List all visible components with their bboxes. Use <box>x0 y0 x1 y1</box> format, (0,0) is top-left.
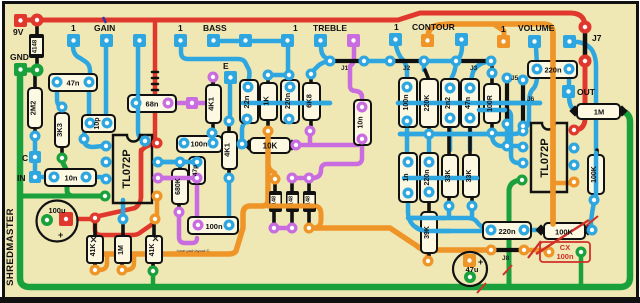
wire blue 100R bottom curve <box>492 135 505 146</box>
pad J3 left <box>451 56 462 67</box>
red cut slash small over orange <box>528 241 541 258</box>
svg-text:100R: 100R <box>487 95 494 112</box>
svg-text:100n: 100n <box>205 222 223 231</box>
pad holes <box>18 18 596 279</box>
diode D1 4148 leads <box>35 22 39 64</box>
svg-text:3K3: 3K3 <box>55 123 64 137</box>
pad VOLUME <box>528 35 541 48</box>
pad 4K1a top magenta <box>208 72 219 83</box>
wire magenta 680K bottom hook to 100n <box>179 213 197 243</box>
resistor lead 6K8 <box>309 75 313 130</box>
wire red 41K1 top zigzag <box>95 218 154 235</box>
pad J6 top <box>518 75 529 86</box>
pad diode2 bottom magenta <box>269 223 280 234</box>
pad 1n bottom <box>403 188 414 199</box>
wire blue J6 bottom to IC pin1 <box>521 126 526 130</box>
wire orange through 10K <box>265 136 271 154</box>
wire blue bus y178 <box>404 176 477 181</box>
pad 47u plus square <box>463 254 476 267</box>
svg-text:BASS: BASS <box>203 23 227 33</box>
svg-text:1M: 1M <box>594 108 604 117</box>
pad 220nA top <box>285 82 296 93</box>
resistor 1K body <box>260 83 277 120</box>
pad J2 left <box>385 56 396 67</box>
pad third gain end <box>140 136 151 147</box>
resistor lead 220K <box>425 70 429 133</box>
pad 10K right magenta <box>291 140 302 151</box>
svg-text:SHREDMASTER: SHREDMASTER <box>5 208 16 286</box>
svg-text:47n: 47n <box>67 79 80 88</box>
capacitor 220nA body <box>281 80 299 123</box>
pad 100nA right <box>208 138 219 149</box>
wire blue J1 to 6K8 top <box>313 61 330 71</box>
pad BASS b <box>239 34 252 47</box>
wire blue buses over 39K <box>412 218 450 231</box>
pad J5 bottom <box>502 119 513 130</box>
svg-text:1: 1 <box>501 24 506 34</box>
pad IC-L pin8 red <box>152 138 163 149</box>
capacitor 68n body <box>128 95 176 112</box>
pad 33Kb bottom <box>467 201 478 212</box>
pad 9V round <box>31 14 44 27</box>
wire orange IC-R stub to pin <box>553 181 572 186</box>
wire blue 2n2 bottom to 33K top <box>448 120 453 150</box>
wire magenta 6K8 bottom stub <box>308 133 313 143</box>
wire blue 10n right to IC pin3 <box>86 177 106 179</box>
component 47u electrolytic outline <box>453 252 487 286</box>
tiny x mark left <box>91 237 96 242</box>
svg-text:J1: J1 <box>341 65 349 72</box>
resistor lead 33Kb <box>470 119 472 205</box>
svg-text:220n: 220n <box>424 170 431 186</box>
pad J8 left orange <box>486 245 497 256</box>
pad 10p left <box>85 118 96 129</box>
wire magenta BASS-1 pad to 10n top <box>350 46 362 104</box>
wire magenta 10K right bus <box>296 143 358 148</box>
pad IC-R pin2 <box>518 142 529 153</box>
pad diode4 top magenta <box>304 173 315 184</box>
wire blue right bus y103 <box>398 101 540 106</box>
pad 10p right <box>102 118 113 129</box>
wire orange right branch under diodes <box>268 206 321 228</box>
red tick on green vertical <box>503 265 512 275</box>
wire orange volume-1 pad stub <box>495 25 504 37</box>
pad 47p top <box>192 157 203 168</box>
pad 220nA bottom link <box>284 70 295 81</box>
svg-text:39K: 39K <box>424 226 431 239</box>
resistor lead 33Ka <box>447 119 451 205</box>
pad 100nA left <box>179 138 190 149</box>
wire blue 1K 220n top link <box>268 73 289 78</box>
wire orange y206 over diodes <box>268 204 314 209</box>
svg-text:J2: J2 <box>403 65 411 72</box>
pad J7 top red <box>579 21 592 34</box>
wire orange 39K bottom pad stub <box>426 250 428 259</box>
svg-text:2n2: 2n2 <box>445 97 452 109</box>
capacitor 1n body <box>399 153 417 202</box>
resistor 3K3 body <box>55 113 69 147</box>
wire orange J8 to CX pad <box>526 248 548 253</box>
pad treble magenta <box>347 34 360 47</box>
resistor 4K1b body <box>222 132 237 169</box>
svg-text:J8: J8 <box>502 255 510 262</box>
pad GND round <box>31 64 44 77</box>
wire blue 220n right to OUT <box>567 76 572 88</box>
wire green CX cap to bus <box>579 253 584 286</box>
pad 41K3 bottom green <box>148 266 159 277</box>
svg-text:68n: 68n <box>146 100 159 109</box>
capacitor 47p body <box>189 157 205 184</box>
wire orange CONTOUR top bus to right column <box>428 24 553 224</box>
pad GAIN <box>100 34 113 47</box>
diamond lead 1M left <box>569 105 580 116</box>
capacitor 220nT body top right <box>528 61 577 78</box>
resistor 33Kb body <box>463 155 479 197</box>
pad 220K bottom <box>424 129 435 140</box>
diode D2 leads <box>274 180 275 226</box>
wire blue y162 over 680K <box>160 160 196 165</box>
jumper J8 <box>491 248 524 252</box>
wire blue 4K1a bottom to 100n <box>210 134 215 141</box>
capacitor lead 220nA top <box>287 77 291 84</box>
capacitor 47nB body <box>461 79 479 127</box>
svg-text:VOLUME: VOLUME <box>518 23 555 33</box>
svg-text:1: 1 <box>394 22 399 32</box>
pad 10n-m bottom <box>357 134 368 145</box>
svg-text:220n: 220n <box>544 66 562 75</box>
wire magenta 10n bottom to bus <box>360 139 365 145</box>
capacitor 22n body <box>240 80 258 123</box>
resistor 10K body <box>250 138 290 153</box>
resistor lead 2M2 top <box>33 72 37 90</box>
pad IC-L pin2 <box>101 157 112 168</box>
resistor lead 4K1a <box>211 78 215 132</box>
diode D3 4148 body <box>286 191 299 212</box>
pad 100nB-bot right <box>224 220 235 231</box>
pad 10n left <box>49 172 60 183</box>
svg-text:TL072P: TL072P <box>121 149 133 188</box>
pad J1 left <box>325 56 336 67</box>
diode D3 leads <box>290 180 294 226</box>
wire blue 4K1b bottom to 100n right <box>227 179 232 222</box>
red tick on blue right <box>586 216 598 226</box>
IC U2 TL072P right <box>531 123 567 192</box>
pad 220nB bottom <box>424 187 435 198</box>
svg-text:33K: 33K <box>445 170 452 183</box>
svg-text:+: + <box>478 257 483 267</box>
wire blue through 68n <box>136 96 141 112</box>
svg-text:GAIN: GAIN <box>94 23 115 33</box>
pad IN <box>29 171 41 183</box>
svg-text:J3: J3 <box>470 65 478 72</box>
wire blue 47nB bottom to 33Kb top <box>468 120 473 150</box>
svg-text:1M: 1M <box>118 245 125 255</box>
diamond lead 10K left <box>243 139 254 150</box>
pad J6 bottom <box>518 121 529 132</box>
wire blue third pad down <box>138 46 144 141</box>
wire magenta 4K1a top pad stub <box>211 77 216 84</box>
pad diode3 bottom magenta <box>287 223 298 234</box>
pad bass1 <box>174 34 187 47</box>
pad 10K left <box>237 139 248 150</box>
pad volume1 orange <box>497 35 510 48</box>
svg-text:10K: 10K <box>263 142 278 151</box>
svg-text:10p: 10p <box>94 117 101 129</box>
svg-text:47p: 47p <box>192 165 199 176</box>
pad 1K top <box>263 70 274 81</box>
pad gain1 <box>67 34 80 47</box>
pad 1n top <box>403 157 414 168</box>
pad GND square <box>14 63 27 76</box>
wire orange 1K bottom long net <box>99 133 268 254</box>
diode D2 4148 body <box>269 191 282 212</box>
wire blue bus y134 over bodies <box>400 132 512 137</box>
diamond lead 10K right <box>286 139 297 150</box>
pad IC-L pin4 green <box>100 191 111 202</box>
wire blue 220n left to IC pin1 <box>524 76 537 129</box>
pad 6K8 bottom magenta <box>305 126 316 137</box>
wire blue IN to 10n left <box>35 175 54 180</box>
pad IC-L pin6 magenta <box>153 173 164 184</box>
svg-text:CX: CX <box>560 243 570 252</box>
wire blue E pad to 4K1b top <box>228 82 233 119</box>
pad BASS a <box>207 34 220 47</box>
diode D1 4148 body <box>29 34 44 58</box>
wire magenta IC-L pin6 to 47p bottom <box>158 176 197 181</box>
pad TREBLE <box>314 34 327 47</box>
resistor lead 1K <box>266 76 270 129</box>
pad 100Kv bottom <box>589 195 600 206</box>
svg-text:100u: 100u <box>48 206 66 215</box>
pad 220nH right <box>519 225 530 236</box>
pad 100R top <box>487 68 498 79</box>
red tick on green bus <box>477 283 486 293</box>
pad IC-R pin5 orange <box>569 177 580 188</box>
pad 2n2 bottom <box>445 113 456 124</box>
pad 39K bottom orange <box>423 256 434 267</box>
pad 68n right magenta <box>163 98 174 109</box>
pad CX left orange <box>544 247 555 258</box>
pad CONTOUR orange <box>421 34 434 47</box>
svg-text:100n: 100n <box>190 140 208 149</box>
resistor 2M2 body <box>28 88 42 128</box>
svg-text:220n: 220n <box>285 93 292 109</box>
wire orange through right IC <box>550 34 556 224</box>
svg-text:100n: 100n <box>403 95 410 111</box>
pad IC-R pin4 green <box>517 175 528 186</box>
svg-text:1: 1 <box>293 23 298 33</box>
svg-text:10n: 10n <box>358 116 365 128</box>
resistor lead 100R <box>490 63 494 132</box>
diode D4 leads <box>307 180 311 226</box>
resistor 680K body <box>172 169 188 204</box>
pad IC-R pin6 <box>569 160 580 171</box>
pad IC-R pin3 <box>518 158 529 169</box>
pad gain3 <box>133 34 146 47</box>
resistor lead 2M2 bottom <box>33 127 37 134</box>
wire blue 1n bottom to bus y231 <box>408 194 482 231</box>
wire blue 100nB bottom to 1n top <box>405 123 410 160</box>
pad 22n bottom <box>242 114 253 125</box>
resistor 41K3 body <box>146 236 162 263</box>
jumper J2 <box>390 59 424 63</box>
resistor 100R body <box>484 84 500 123</box>
capacitor 100nA body <box>177 136 222 152</box>
pad 3K3 top <box>57 102 68 113</box>
wire red through left IC <box>139 150 144 198</box>
pad IC-L pin7 blue <box>153 157 164 168</box>
pad 1K bottom orange <box>263 126 274 137</box>
svg-text:1n: 1n <box>403 173 410 181</box>
pad contour right <box>455 33 468 46</box>
capacitor 10p body <box>82 115 115 132</box>
wire blue mid bus y103 <box>243 101 330 106</box>
svg-text:680K: 680K <box>175 178 182 195</box>
pad 47n right <box>84 77 95 88</box>
pad 220nB top <box>424 157 435 168</box>
pad 220nA lower <box>284 114 295 125</box>
pad 100nB-bot left magenta <box>193 220 204 231</box>
svg-text:IN: IN <box>17 173 26 183</box>
wire blue J2 right pad stub down <box>422 63 427 70</box>
capacitor 10n body <box>45 169 96 186</box>
pad IC-R pin7 <box>569 143 580 154</box>
component 100u electrolytic outline <box>37 201 78 242</box>
svg-text:E: E <box>223 61 229 71</box>
wire blue J2-J3 link <box>424 59 456 64</box>
wire blue BASS row bus <box>214 39 288 44</box>
svg-text:1: 1 <box>178 23 183 33</box>
pad 10n-m top <box>357 102 368 113</box>
wire blue 22n bottom to 10K left <box>242 121 247 143</box>
wire red 100u plus to 41K <box>66 217 95 222</box>
wire blue 220K bottom to 220nB top <box>427 134 432 160</box>
wire blue bus y134 to IC pin <box>400 132 521 134</box>
svg-text:100K: 100K <box>555 228 574 237</box>
wire blue 2M2 bottom to C to IN <box>33 137 38 177</box>
svg-text:C: C <box>22 153 28 163</box>
svg-text:1K: 1K <box>262 96 271 106</box>
pad pin2 stub <box>502 141 513 152</box>
pad OUT <box>562 85 575 98</box>
resistor lead 41K1 <box>93 219 97 269</box>
resistor 39K body <box>421 212 437 253</box>
pad 680K top <box>175 157 186 168</box>
pad 680K bottom magenta <box>174 207 185 218</box>
wire orange diode3 bottom bus to 39K and J8 <box>309 228 487 250</box>
resistor 1Mv body <box>115 236 131 263</box>
pad IC-R pin8 red <box>569 125 580 136</box>
svg-text:+: + <box>58 230 63 240</box>
component value texts <box>29 66 605 275</box>
wire green 41K3 bottom stub <box>151 271 156 286</box>
pad 220n left <box>532 64 543 75</box>
svg-text:TREBLE: TREBLE <box>313 23 347 33</box>
pad J8 right orange <box>519 245 530 256</box>
svg-text:41K: 41K <box>90 244 97 257</box>
svg-text:220n: 220n <box>498 227 516 236</box>
pad 100Kh right <box>587 225 598 236</box>
wire blue OUT to 1M left <box>569 96 574 110</box>
wire magenta 47p bottom down <box>195 178 200 228</box>
resistor lead 41K3 <box>153 220 154 269</box>
resistor 33Ka body <box>442 155 458 197</box>
pad IC-L pin1 <box>101 141 112 152</box>
wire blue 100Kv bottom to 100Kh right <box>591 202 594 229</box>
wire blue bus y110 over bodies <box>479 108 505 113</box>
resistor lead 1Mv <box>122 220 123 269</box>
diode D4 4148 body <box>303 191 316 212</box>
svg-text:22n: 22n <box>242 95 251 108</box>
pad 4K1b top <box>224 116 235 127</box>
resistor 6K8 body <box>303 83 320 120</box>
jumper J6 <box>521 82 525 124</box>
pad 2n2 top <box>445 83 456 94</box>
wire blue TREBLE pad to J1 <box>321 47 330 61</box>
svg-text:220K: 220K <box>424 95 431 112</box>
pad 100R bottom <box>487 128 498 139</box>
pad E <box>224 71 237 84</box>
svg-text:4148: 4148 <box>33 39 39 53</box>
wire blue contour right pad to J3 <box>456 46 462 61</box>
pad 4K1b bottom <box>224 173 235 184</box>
svg-text:J6: J6 <box>527 96 535 103</box>
jumper J3 <box>456 59 491 63</box>
pad 47p bottom magenta <box>192 173 203 184</box>
svg-text:100n: 100n <box>556 252 574 261</box>
svg-text:100K: 100K <box>591 166 598 183</box>
svg-text:41K: 41K <box>149 244 156 257</box>
jumper J1 <box>330 59 364 63</box>
svg-text:6K8: 6K8 <box>305 94 314 108</box>
wire blue IC-L pin7 bus to 47p top <box>158 160 197 165</box>
svg-text:4K1: 4K1 <box>223 143 232 157</box>
wire blue GAIN down to 10p right <box>104 46 109 121</box>
pad 100u plus square <box>59 212 73 226</box>
wire blue 10p left down <box>84 125 89 137</box>
svg-text:OUT: OUT <box>577 87 596 97</box>
IC U1 TL072P left <box>113 135 152 203</box>
CX capacitor red annotation box <box>540 242 590 262</box>
wire blue 220nH right to 100Kh <box>526 228 540 233</box>
wire magenta 10n bottom L to diode tops <box>292 139 362 178</box>
wire 9V red top bus <box>22 13 585 130</box>
pad 41K3 top orange <box>150 214 161 225</box>
svg-text:47n: 47n <box>465 97 472 109</box>
pad 33Ka bottom <box>444 201 455 212</box>
wire green GND left vertical and bottom bus <box>20 70 630 287</box>
resistor lead 4K1b <box>227 122 231 177</box>
wire blue pad1 to 47n right <box>73 46 90 80</box>
wire orange riser to 41K bottom <box>99 254 107 270</box>
pad 1Mv bottom orange <box>117 265 128 276</box>
resistor 1M body <box>577 104 620 119</box>
pad 10n right <box>81 172 92 183</box>
wire orange riser to 1M bottom <box>126 254 134 270</box>
pad 47nB bottom <box>465 113 476 124</box>
wire magenta y178 over 680K <box>160 176 196 181</box>
pad 100nB bottom <box>402 116 413 127</box>
wire blue bus y218 to 220n left <box>408 218 484 228</box>
resistor lead 39K <box>427 193 431 259</box>
pad 68n left <box>131 98 142 109</box>
capacitor 47n body <box>49 74 97 91</box>
resistor 100Kv body <box>588 155 604 194</box>
wire magenta 68n right to 4K1a <box>168 101 208 106</box>
wire green 47u negative stub <box>468 276 473 286</box>
pad 100u green <box>41 214 53 226</box>
wire blue IC bottom to 1M top <box>121 200 126 217</box>
